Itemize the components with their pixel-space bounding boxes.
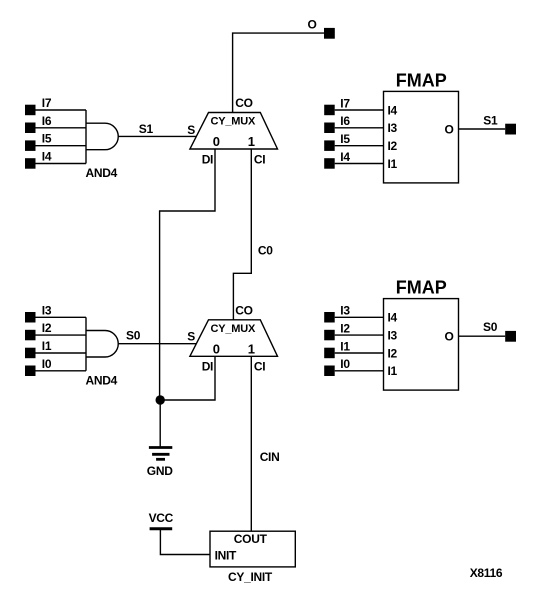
svg-text:FMAP: FMAP xyxy=(396,278,447,298)
svg-text:CIN: CIN xyxy=(260,450,280,464)
svg-text:I0: I0 xyxy=(340,357,350,371)
wire F2 I3 xyxy=(335,316,384,318)
AND4 G1 input pad I6 xyxy=(25,123,36,134)
wire I1 to AND4 G2 xyxy=(36,352,87,354)
svg-text:I3: I3 xyxy=(42,303,52,317)
junction dot xyxy=(156,395,165,404)
output pad S0 xyxy=(505,331,516,342)
svg-text:DI: DI xyxy=(202,360,213,374)
svg-text:I1: I1 xyxy=(340,339,350,353)
svg-text:I2: I2 xyxy=(42,321,52,335)
svg-text:CO: CO xyxy=(235,96,252,110)
svg-text:I2: I2 xyxy=(388,139,398,153)
wire CO output of U1 to pad O xyxy=(233,33,324,112)
svg-text:CI: CI xyxy=(254,152,265,166)
wire I4 to AND4 G1 xyxy=(36,163,87,165)
wire I0 to AND4 G2 xyxy=(36,370,87,372)
AND4 G2 input bus xyxy=(85,317,87,371)
svg-text:I4: I4 xyxy=(42,150,52,164)
wire F2 I2 xyxy=(335,334,384,336)
svg-text:I1: I1 xyxy=(42,339,52,353)
wire I6 to AND4 G1 xyxy=(36,127,87,129)
svg-text:I7: I7 xyxy=(42,96,52,110)
svg-text:I4: I4 xyxy=(388,103,398,117)
svg-text:S1: S1 xyxy=(139,122,154,136)
FMAP F2 pad I0 xyxy=(324,366,335,377)
svg-text:I5: I5 xyxy=(340,132,350,146)
svg-text:GND: GND xyxy=(147,464,173,478)
svg-text:I4: I4 xyxy=(340,150,350,164)
wire DI of U1 down-left to net xyxy=(160,149,215,400)
svg-text:CO: CO xyxy=(235,304,252,318)
FMAP F1 pad I7 xyxy=(324,105,335,116)
AND4 G1 input pad I4 xyxy=(25,158,36,169)
wire F1 I7 xyxy=(335,109,384,111)
svg-text:AND4: AND4 xyxy=(86,373,118,387)
svg-text:S: S xyxy=(187,329,195,343)
wire S1 from AND4 G1 to CY_MUX U1 S pin xyxy=(118,135,196,137)
AND4 G1 input pad I5 xyxy=(25,140,36,151)
svg-text:S0: S0 xyxy=(483,320,498,334)
wire I7 to AND4 G1 xyxy=(36,109,87,111)
wire DI of U2 down-left to junction xyxy=(160,356,215,400)
svg-text:S0: S0 xyxy=(126,329,141,343)
FMAP F2 box xyxy=(384,299,459,391)
svg-text:I6: I6 xyxy=(42,114,52,128)
svg-text:I2: I2 xyxy=(388,346,398,360)
svg-text:FMAP: FMAP xyxy=(396,71,447,91)
ground symbol xyxy=(149,448,172,460)
svg-text:I2: I2 xyxy=(340,321,350,335)
svg-text:I0: I0 xyxy=(42,357,52,371)
FMAP F1 pad I4 xyxy=(324,158,335,169)
svg-text:CY_MUX: CY_MUX xyxy=(211,116,257,128)
svg-text:I3: I3 xyxy=(340,304,350,318)
svg-text:I4: I4 xyxy=(388,311,398,325)
wire F1 I4 xyxy=(335,163,384,165)
output pad O xyxy=(324,28,335,39)
AND4 G2 gate body xyxy=(86,331,118,358)
AND4 G2 input pad I2 xyxy=(25,330,36,341)
AND4 G1 input bus xyxy=(85,110,87,164)
FMAP F1 box xyxy=(384,91,459,182)
wire CI of U1 down to C0 and U2 CO xyxy=(233,149,251,320)
svg-text:CY_MUX: CY_MUX xyxy=(211,323,257,335)
svg-text:INIT: INIT xyxy=(215,549,237,563)
wire F2 I1 xyxy=(335,352,384,354)
svg-text:0: 0 xyxy=(213,134,220,149)
output pad S1 xyxy=(505,124,516,135)
svg-text:I3: I3 xyxy=(388,328,398,342)
AND4 G1 input pad I7 xyxy=(25,105,36,116)
AND4 G2 input pad I0 xyxy=(25,366,36,377)
svg-text:S: S xyxy=(187,123,195,137)
wire F1 I6 xyxy=(335,127,384,129)
wire junction to GND xyxy=(159,400,161,448)
wire S0 from AND4 G2 to CY_MUX U2 S pin xyxy=(118,343,196,345)
wire CIN from U2 CI to CY_INIT COUT xyxy=(250,356,252,531)
svg-text:CI: CI xyxy=(254,360,265,374)
svg-text:I5: I5 xyxy=(42,132,52,146)
FMAP F1 pad I5 xyxy=(324,140,335,151)
svg-text:O: O xyxy=(445,122,454,136)
wire F2 I0 xyxy=(335,370,384,372)
AND4 G2 input pad I1 xyxy=(25,348,36,359)
svg-text:CY_INIT: CY_INIT xyxy=(228,570,273,584)
svg-text:COUT: COUT xyxy=(234,532,268,546)
svg-text:0: 0 xyxy=(213,341,220,356)
svg-text:1: 1 xyxy=(248,341,255,356)
wire F1 I5 xyxy=(335,145,384,147)
wire I5 to AND4 G1 xyxy=(36,145,87,147)
svg-text:X8116: X8116 xyxy=(470,566,503,580)
svg-text:AND4: AND4 xyxy=(86,166,118,180)
FMAP F2 pad I1 xyxy=(324,348,335,359)
mux U1 trapezoid body xyxy=(190,113,278,150)
mux U2 trapezoid body xyxy=(190,320,278,357)
svg-text:I7: I7 xyxy=(340,96,350,110)
svg-text:I1: I1 xyxy=(388,157,398,171)
svg-text:C0: C0 xyxy=(258,244,273,258)
vcc symbol xyxy=(150,527,173,530)
CY_INIT box xyxy=(210,531,295,567)
svg-text:1: 1 xyxy=(248,134,255,149)
FMAP F1 pad I6 xyxy=(324,123,335,134)
wire I3 to AND4 G2 xyxy=(36,316,87,318)
svg-text:S1: S1 xyxy=(483,114,498,128)
svg-text:O: O xyxy=(308,18,317,32)
FMAP F2 pad I2 xyxy=(324,330,335,341)
svg-text:VCC: VCC xyxy=(149,511,174,525)
AND4 G2 input pad I3 xyxy=(25,312,36,323)
svg-text:I6: I6 xyxy=(340,114,350,128)
AND4 G1 gate body xyxy=(86,123,118,150)
svg-text:O: O xyxy=(445,330,454,344)
svg-text:I3: I3 xyxy=(388,121,398,135)
svg-text:DI: DI xyxy=(202,152,213,166)
wire I2 to AND4 G2 xyxy=(36,334,87,336)
wire F1 output O to pad S1 xyxy=(459,128,506,130)
wire VCC to INIT pin xyxy=(160,529,210,555)
svg-text:I1: I1 xyxy=(388,364,398,378)
FMAP F2 pad I3 xyxy=(324,312,335,323)
wire F2 output O to pad S0 xyxy=(459,335,506,337)
